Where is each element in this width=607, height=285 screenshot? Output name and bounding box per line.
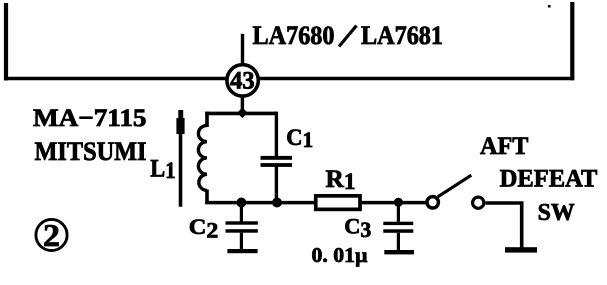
IC U1 box bottom edge — [4, 77, 574, 81]
node junction L1/C2 — [236, 198, 246, 208]
wire tank left bottom — [205, 190, 209, 204]
svg-text:SW: SW — [538, 200, 575, 226]
capacitor C3 bottom plate — [383, 229, 413, 233]
svg-text:AFT: AFT — [480, 133, 529, 160]
wire tank left drop — [205, 112, 209, 127]
pin 43 circle — [227, 65, 258, 96]
wire C2 top stem — [240, 203, 243, 222]
svg-text:C1: C1 — [286, 125, 313, 152]
switch SW contact B circle — [473, 197, 484, 208]
svg-text:LA7680: LA7680 — [253, 21, 335, 50]
ground C3 bar — [384, 250, 414, 254]
svg-text:C2: C2 — [189, 214, 218, 242]
capacitor C1 top plate — [261, 156, 293, 160]
capacitor C1 bottom plate — [261, 163, 293, 167]
svg-text:0. 01µ: 0. 01µ — [312, 243, 369, 267]
svg-text:2: 2 — [43, 217, 60, 253]
figure number circle 2 — [36, 219, 67, 250]
wire tank top — [205, 112, 276, 116]
svg-text:C3: C3 — [344, 214, 371, 242]
capacitor C2 top plate — [226, 221, 258, 224]
capacitor C3 top plate — [383, 222, 413, 225]
svg-text:DEFEAT: DEFEAT — [500, 165, 598, 192]
tuning arrow for L1 — [179, 130, 183, 207]
capacitor C2 bottom plate — [226, 229, 258, 233]
slash separator — [339, 26, 357, 47]
wire C3 bottom stem — [397, 233, 400, 251]
resistor R1 — [316, 196, 360, 210]
wire switch to ground corner — [485, 203, 521, 250]
IC U1 box left edge — [4, 3, 8, 81]
svg-text:MA−7115: MA−7115 — [33, 105, 147, 132]
switch lever — [438, 175, 472, 197]
node junction C1 — [272, 198, 282, 208]
wire tank right drop — [275, 112, 278, 157]
svg-text:LA7681: LA7681 — [361, 21, 443, 50]
svg-text:R1: R1 — [326, 166, 356, 194]
wire C3 top stem — [397, 202, 400, 221]
wire pin 43 stub — [241, 34, 244, 66]
svg-text:L1: L1 — [150, 156, 175, 184]
ground C2 bar — [227, 249, 257, 253]
inductor L1 — [198, 125, 207, 190]
node junction below pin 43 — [237, 108, 248, 119]
wire below pin 43 — [241, 96, 244, 110]
IC U1 box right edge — [570, 2, 574, 80]
svg-text:MITSUMI: MITSUMI — [35, 137, 147, 166]
node junction C3 — [394, 198, 403, 207]
wire C2 bottom stem — [240, 233, 243, 250]
svg-text:43: 43 — [230, 67, 255, 94]
wire C1 bottom stem — [275, 167, 278, 204]
wire main horizontal — [205, 201, 427, 205]
speck — [548, 5, 551, 8]
switch SW contact A circle — [427, 197, 438, 208]
ground SW bar — [505, 247, 537, 252]
